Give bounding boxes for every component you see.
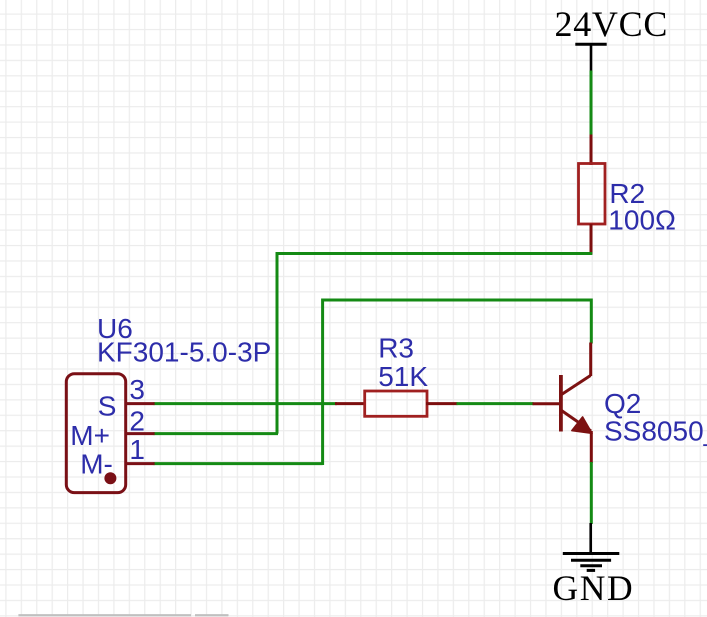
wire R3 to Q2 base — [457, 402, 534, 405]
resistor R3 — [335, 391, 458, 416]
resistor R2 — [579, 135, 606, 255]
connector U6 pin 2 — [126, 432, 155, 435]
svg-text:S: S — [98, 390, 117, 421]
svg-text:R3: R3 — [378, 333, 414, 364]
svg-text:100Ω: 100Ω — [608, 205, 676, 236]
ground GND — [563, 523, 620, 570]
pin number 3 — [129, 374, 145, 405]
svg-text:SS8050_: SS8050_ — [604, 416, 707, 447]
pin name S — [98, 390, 117, 421]
wire R2 bottom to pin2 (M+) — [154, 254, 593, 434]
net label 24VCC — [555, 4, 669, 44]
wire emitter to GND — [590, 462, 593, 524]
pin number 2 — [129, 406, 145, 437]
wire 24VCC to R2 — [590, 71, 593, 137]
bottom window edge — [18, 615, 228, 617]
label Q2 SS8050 — [604, 388, 707, 447]
transistor Q2 — [533, 343, 593, 464]
svg-text:1: 1 — [129, 434, 145, 465]
svg-text:2: 2 — [129, 406, 145, 437]
svg-text:GND: GND — [553, 568, 635, 608]
svg-text:KF301-5.0-3P: KF301-5.0-3P — [97, 337, 271, 368]
pin number 1 — [129, 434, 145, 465]
svg-text:24VCC: 24VCC — [555, 4, 669, 44]
svg-text:3: 3 — [129, 374, 145, 405]
label U6 KF301-5.0-3P — [97, 313, 271, 368]
connector U6 pin 3 — [126, 402, 155, 405]
svg-text:M-: M- — [80, 448, 113, 479]
svg-text:Q2: Q2 — [604, 388, 641, 419]
svg-text:51K: 51K — [378, 361, 428, 392]
connector U6 pin 1 — [126, 462, 155, 465]
label R2 100ohm — [608, 178, 676, 236]
pin name M- — [80, 448, 113, 479]
pin name M+ — [70, 420, 110, 451]
wire pin3 (S) to R3 — [154, 402, 338, 405]
label R3 51K — [378, 333, 428, 393]
connector U6 body — [66, 374, 125, 493]
net label GND — [553, 568, 635, 608]
svg-text:M+: M+ — [70, 420, 110, 451]
wire collector to pin1 (M-) — [154, 300, 592, 465]
power flag 24VCC — [575, 44, 606, 71]
